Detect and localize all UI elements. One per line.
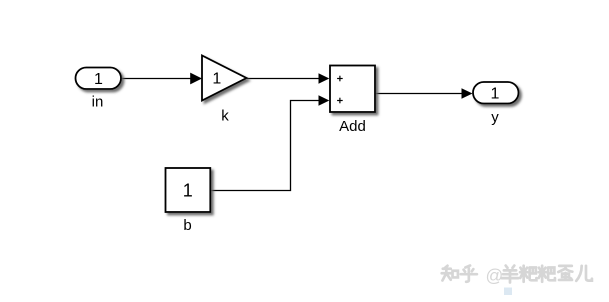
svg-text:k: k [221,108,229,125]
svg-text:y: y [491,109,499,126]
svg-text:1: 1 [183,181,193,201]
svg-text:@: @ [486,266,504,286]
svg-text:in: in [92,94,104,111]
svg-text:Add: Add [339,118,366,135]
svg-text:1: 1 [212,71,221,88]
svg-text:1: 1 [490,86,499,103]
svg-text:b: b [183,217,191,234]
svg-text:1: 1 [94,71,103,88]
